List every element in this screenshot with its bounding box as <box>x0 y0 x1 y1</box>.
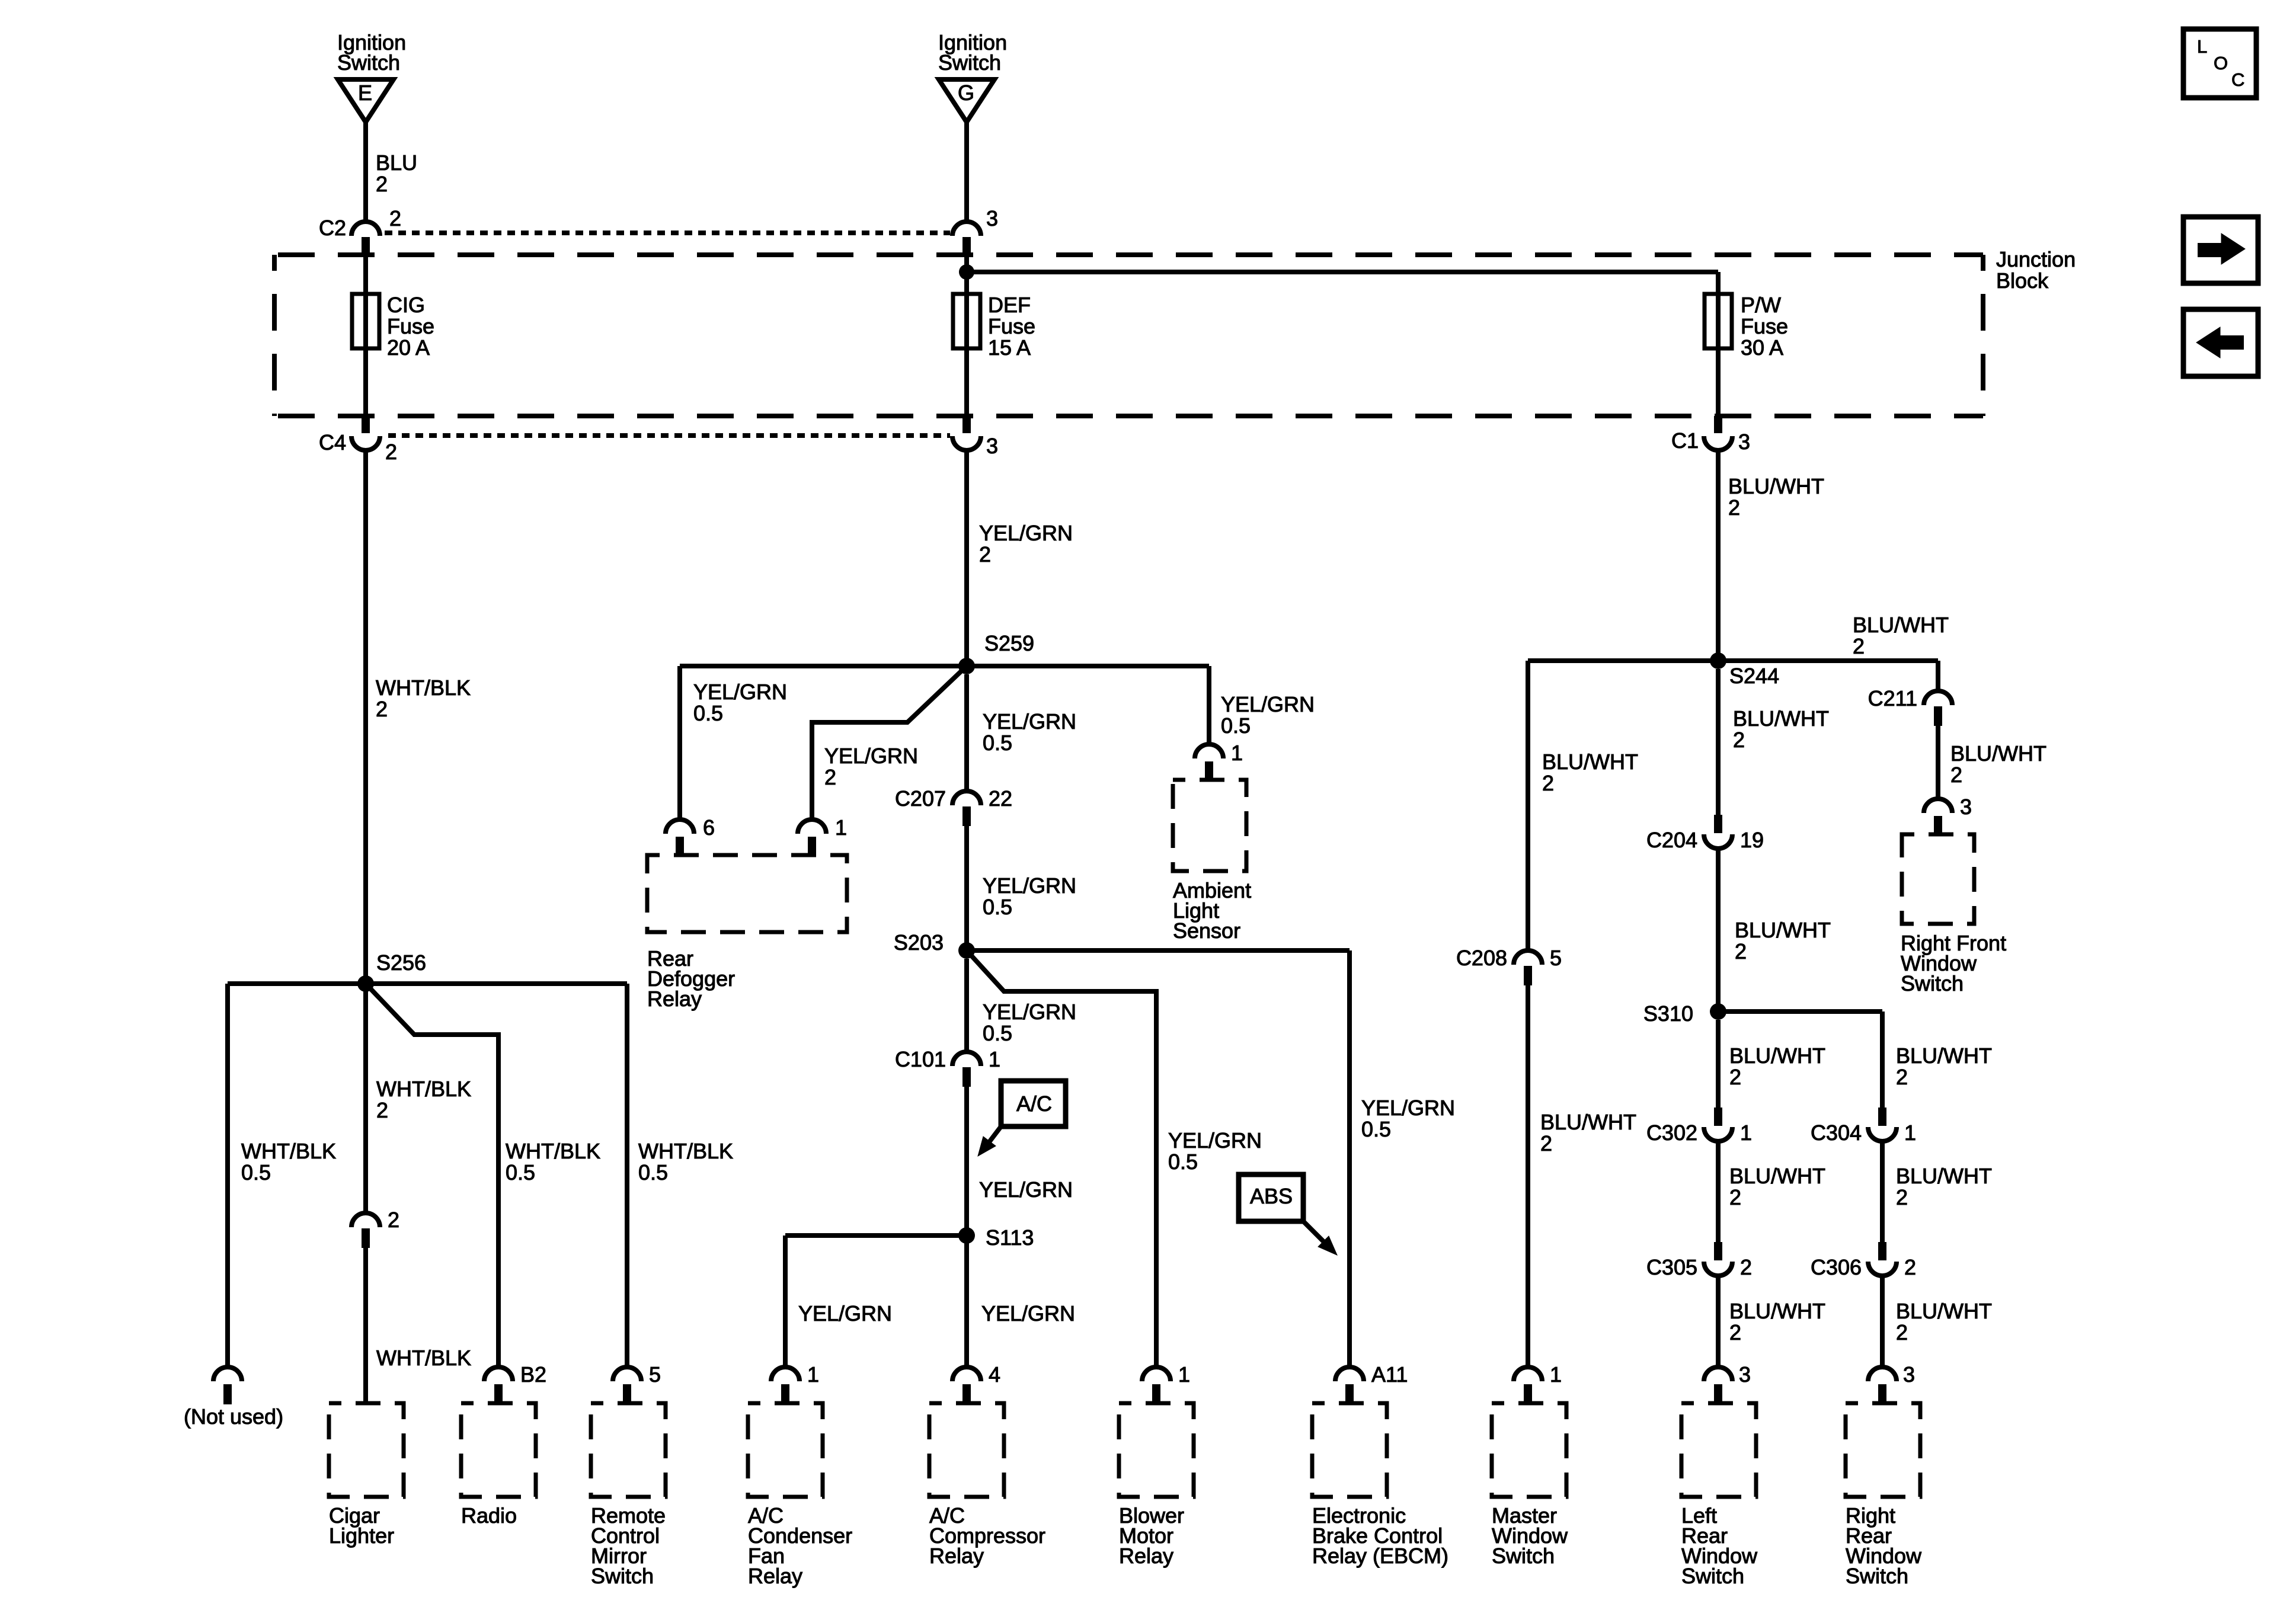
svg-text:Fuse: Fuse <box>387 314 434 338</box>
svg-text:0.5: 0.5 <box>983 895 1012 919</box>
svg-text:YEL/GRN: YEL/GRN <box>798 1301 892 1326</box>
svg-text:BLU/WHT: BLU/WHT <box>1729 1044 1825 1068</box>
svg-text:0.5: 0.5 <box>983 1021 1012 1045</box>
svg-text:YEL/GRN: YEL/GRN <box>981 1301 1075 1326</box>
svg-text:L: L <box>2197 36 2207 57</box>
svg-text:S256: S256 <box>376 950 426 975</box>
svg-text:B2: B2 <box>520 1362 546 1387</box>
svg-text:6: 6 <box>703 815 715 840</box>
svg-text:2: 2 <box>385 440 397 464</box>
svg-text:Lighter: Lighter <box>329 1523 394 1548</box>
svg-text:2: 2 <box>389 206 401 231</box>
svg-text:1: 1 <box>1231 741 1243 765</box>
svg-text:Switch: Switch <box>1846 1564 1908 1588</box>
svg-text:Junction: Junction <box>1996 247 2076 271</box>
svg-text:BLU/WHT: BLU/WHT <box>1729 1164 1825 1188</box>
svg-text:BLU/WHT: BLU/WHT <box>1540 1110 1636 1134</box>
svg-text:2: 2 <box>1729 1185 1741 1209</box>
svg-text:2: 2 <box>1729 1065 1741 1089</box>
svg-text:YEL/GRN: YEL/GRN <box>983 1000 1076 1024</box>
svg-text:A/C: A/C <box>1016 1092 1052 1116</box>
svg-text:WHT/BLK: WHT/BLK <box>506 1139 600 1163</box>
svg-text:C4: C4 <box>319 430 346 454</box>
svg-text:A11: A11 <box>1371 1362 1408 1387</box>
svg-text:1: 1 <box>1178 1362 1190 1387</box>
svg-text:S310: S310 <box>1643 1001 1693 1026</box>
svg-text:2: 2 <box>1542 771 1554 795</box>
svg-text:20 A: 20 A <box>387 335 430 360</box>
svg-text:YEL/GRN: YEL/GRN <box>693 680 787 704</box>
svg-text:5: 5 <box>649 1362 661 1387</box>
svg-text:Fuse: Fuse <box>1741 314 1788 338</box>
svg-text:2: 2 <box>1540 1131 1552 1156</box>
svg-text:YEL/GRN: YEL/GRN <box>979 1177 1073 1202</box>
svg-text:BLU/WHT: BLU/WHT <box>1735 918 1831 942</box>
svg-text:WHT/BLK: WHT/BLK <box>241 1139 336 1163</box>
svg-text:0.5: 0.5 <box>1221 713 1251 738</box>
svg-text:BLU/WHT: BLU/WHT <box>1542 750 1638 774</box>
svg-text:1: 1 <box>1550 1362 1562 1387</box>
svg-text:2: 2 <box>1853 634 1865 658</box>
svg-text:0.5: 0.5 <box>1168 1150 1198 1174</box>
svg-text:BLU/WHT: BLU/WHT <box>1853 613 1949 637</box>
svg-text:2: 2 <box>1896 1185 1908 1209</box>
svg-text:15 A: 15 A <box>988 335 1031 360</box>
svg-text:2: 2 <box>388 1208 399 1232</box>
svg-text:C2: C2 <box>319 216 346 240</box>
svg-text:YEL/GRN: YEL/GRN <box>983 709 1076 734</box>
svg-text:WHT/BLK: WHT/BLK <box>376 1346 471 1370</box>
svg-text:C204: C204 <box>1646 828 1697 852</box>
svg-text:Fuse: Fuse <box>988 314 1035 338</box>
svg-text:3: 3 <box>986 434 998 458</box>
svg-text:4: 4 <box>989 1362 1000 1387</box>
svg-text:O: O <box>2214 53 2228 73</box>
svg-text:Relay (EBCM): Relay (EBCM) <box>1312 1544 1448 1568</box>
svg-text:Switch: Switch <box>1681 1564 1744 1588</box>
svg-text:Relay: Relay <box>647 987 702 1011</box>
svg-text:2: 2 <box>1950 763 1962 787</box>
svg-text:2: 2 <box>1733 728 1745 752</box>
svg-text:G: G <box>958 81 974 105</box>
svg-text:0.5: 0.5 <box>638 1160 668 1185</box>
svg-text:3: 3 <box>1738 430 1750 454</box>
svg-text:1: 1 <box>835 815 847 840</box>
svg-text:0.5: 0.5 <box>1361 1117 1391 1141</box>
svg-text:1: 1 <box>807 1362 819 1387</box>
svg-text:19: 19 <box>1740 828 1764 852</box>
svg-text:BLU/WHT: BLU/WHT <box>1733 706 1829 731</box>
svg-text:Relay: Relay <box>929 1544 984 1568</box>
svg-text:2: 2 <box>376 1098 388 1122</box>
svg-text:Relay: Relay <box>1119 1544 1173 1568</box>
svg-text:BLU/WHT: BLU/WHT <box>1896 1299 1992 1323</box>
svg-text:BLU/WHT: BLU/WHT <box>1896 1044 1992 1068</box>
svg-text:3: 3 <box>986 206 998 231</box>
svg-text:YEL/GRN: YEL/GRN <box>1221 692 1315 716</box>
svg-text:2: 2 <box>1896 1320 1908 1345</box>
svg-text:30 A: 30 A <box>1741 335 1783 360</box>
svg-text:Radio: Radio <box>461 1503 517 1528</box>
svg-text:2: 2 <box>979 542 991 566</box>
svg-text:C304: C304 <box>1811 1121 1862 1145</box>
svg-text:22: 22 <box>989 786 1012 811</box>
svg-text:3: 3 <box>1739 1362 1751 1387</box>
svg-text:C1: C1 <box>1671 428 1699 453</box>
svg-text:WHT/BLK: WHT/BLK <box>638 1139 733 1163</box>
svg-text:2: 2 <box>1904 1255 1916 1279</box>
svg-text:C207: C207 <box>895 786 946 811</box>
svg-text:E: E <box>358 81 372 105</box>
svg-text:0.5: 0.5 <box>693 701 723 725</box>
svg-text:Sensor: Sensor <box>1173 918 1240 943</box>
svg-text:2: 2 <box>1728 495 1740 520</box>
svg-text:BLU/WHT: BLU/WHT <box>1729 1299 1825 1323</box>
svg-text:C306: C306 <box>1811 1255 1862 1279</box>
svg-text:2: 2 <box>1735 939 1747 964</box>
svg-text:WHT/BLK: WHT/BLK <box>376 676 471 700</box>
svg-text:Switch: Switch <box>337 50 400 75</box>
svg-text:C101: C101 <box>895 1047 946 1071</box>
svg-text:S259: S259 <box>984 631 1034 655</box>
svg-text:Switch: Switch <box>938 50 1001 75</box>
svg-text:CIG: CIG <box>387 293 425 317</box>
svg-text:YEL/GRN: YEL/GRN <box>824 744 918 768</box>
svg-text:(Not used): (Not used) <box>184 1404 283 1429</box>
svg-text:0.5: 0.5 <box>983 731 1012 755</box>
svg-text:Relay: Relay <box>748 1564 802 1588</box>
svg-text:BLU/WHT: BLU/WHT <box>1896 1164 1992 1188</box>
svg-text:1: 1 <box>1740 1121 1752 1145</box>
svg-text:0.5: 0.5 <box>506 1160 535 1185</box>
svg-text:YEL/GRN: YEL/GRN <box>1361 1096 1455 1120</box>
svg-text:2: 2 <box>1740 1255 1752 1279</box>
svg-text:3: 3 <box>1903 1362 1915 1387</box>
svg-text:2: 2 <box>1729 1320 1741 1345</box>
svg-text:YEL/GRN: YEL/GRN <box>983 873 1076 898</box>
svg-text:S244: S244 <box>1729 664 1779 688</box>
svg-text:2: 2 <box>824 765 836 789</box>
svg-text:YEL/GRN: YEL/GRN <box>979 521 1073 545</box>
svg-text:0.5: 0.5 <box>241 1160 271 1185</box>
svg-text:Switch: Switch <box>1492 1544 1555 1568</box>
svg-text:BLU/WHT: BLU/WHT <box>1728 474 1824 498</box>
svg-text:1: 1 <box>989 1047 1000 1071</box>
svg-text:YEL/GRN: YEL/GRN <box>1168 1128 1262 1153</box>
svg-text:2: 2 <box>1896 1065 1908 1089</box>
svg-text:5: 5 <box>1550 946 1562 970</box>
svg-text:ABS: ABS <box>1250 1184 1293 1208</box>
svg-text:Block: Block <box>1996 268 2049 293</box>
svg-text:C208: C208 <box>1456 946 1507 970</box>
svg-text:3: 3 <box>1960 795 1972 819</box>
svg-text:BLU/WHT: BLU/WHT <box>1950 741 2046 766</box>
svg-text:Switch: Switch <box>591 1564 654 1588</box>
svg-text:C302: C302 <box>1646 1121 1697 1145</box>
svg-text:S203: S203 <box>894 930 944 955</box>
svg-text:S113: S113 <box>986 1225 1034 1250</box>
svg-text:C211: C211 <box>1868 686 1917 710</box>
svg-text:Switch: Switch <box>1901 971 1964 996</box>
svg-text:2: 2 <box>376 172 388 196</box>
svg-text:C: C <box>2231 69 2244 90</box>
svg-text:C305: C305 <box>1646 1255 1697 1279</box>
svg-text:2: 2 <box>376 697 388 721</box>
svg-text:1: 1 <box>1904 1121 1916 1145</box>
svg-text:P/W: P/W <box>1741 293 1781 317</box>
svg-text:WHT/BLK: WHT/BLK <box>376 1077 471 1101</box>
svg-text:DEF: DEF <box>988 293 1031 317</box>
svg-text:BLU: BLU <box>376 151 417 175</box>
